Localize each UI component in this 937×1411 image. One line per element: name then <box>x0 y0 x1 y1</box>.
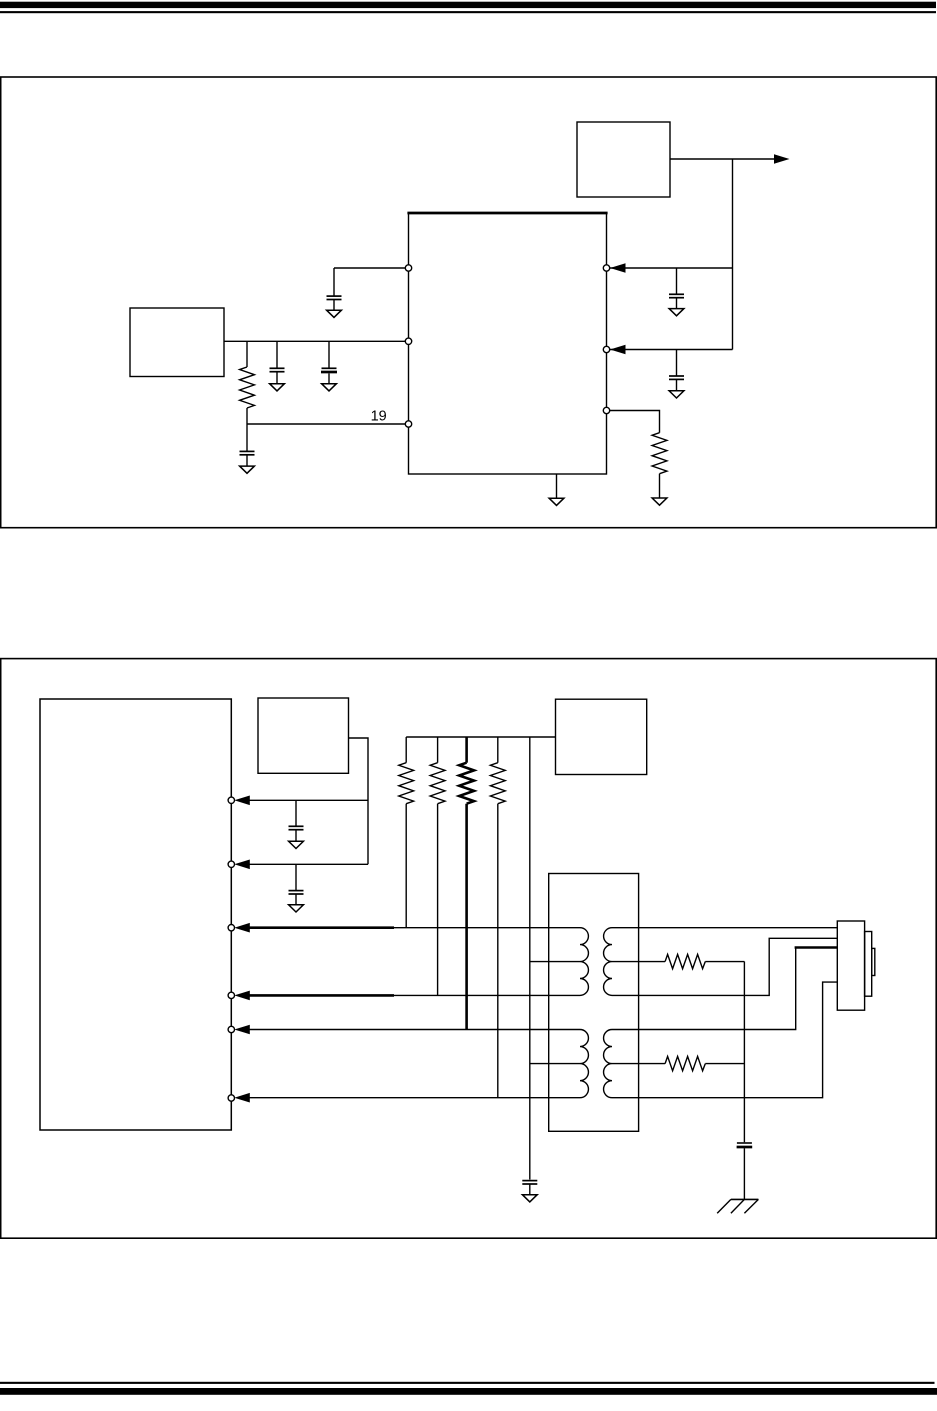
wire upper secondary bottom lead <box>612 938 837 995</box>
ground below right resistor <box>652 498 667 505</box>
ground below node capacitor <box>240 466 255 473</box>
wire lower primary center tap <box>530 1063 580 1065</box>
connector X1 shell <box>865 932 872 997</box>
IC U1 bold top edge <box>407 212 607 215</box>
IC U1 body <box>409 213 607 474</box>
capacitor 1 on U3 wire <box>270 341 285 383</box>
block U5 (small top box) <box>258 698 349 773</box>
transformer T1 upper secondary winding <box>604 928 612 996</box>
capacitor row 1 <box>289 800 304 841</box>
block U6 (top right box) <box>556 699 647 774</box>
wire MCU row 6 to transformer <box>249 1097 581 1099</box>
arrow into right pin 1 <box>610 263 626 273</box>
IC pin circle left 1 <box>405 265 411 271</box>
transformer T1 box <box>549 874 639 1132</box>
wire MCU row 4 bold segment <box>249 994 395 997</box>
wire IC right pin row 1 <box>610 267 733 269</box>
resistor right (vertical) <box>652 433 667 474</box>
wire pin 19 <box>247 423 409 425</box>
wire U3 to IC left pin 2 <box>224 340 409 342</box>
capacitor common reference <box>522 1181 537 1195</box>
earth ground <box>717 1199 758 1213</box>
wire MCU pin row 1 <box>249 799 369 801</box>
wire U5 output to vertical <box>349 738 369 864</box>
ground common reference <box>522 1195 537 1202</box>
capacitor on right row 2 <box>669 350 684 391</box>
capacitor row 2 <box>289 864 304 905</box>
wire upper secondary center tap <box>612 961 665 963</box>
block U3 (left box) <box>130 308 224 377</box>
wire MCU row 4 to transformer <box>393 994 580 996</box>
transformer T1 lower primary winding <box>580 1030 588 1098</box>
figure frame 1 <box>1 77 937 528</box>
MCU pin circle 3 <box>228 925 234 931</box>
ground capacitor 1 <box>270 384 285 391</box>
wire bold stub into connector <box>795 946 838 949</box>
arrow into MCU pin 2 <box>234 860 250 870</box>
capacitor below node 19 <box>240 451 255 466</box>
wire U2 output <box>670 158 775 160</box>
wire upper damping resistor to shield node <box>705 961 744 963</box>
ground row 2 <box>289 905 304 912</box>
MCU pin circle 6 <box>228 1095 234 1101</box>
wire lower damping resistor to shield node <box>705 1063 744 1065</box>
footer thin rule <box>0 1382 935 1384</box>
wire MCU row 3 to transformer <box>393 927 580 929</box>
wire resistor 2 to row 4 <box>437 804 439 996</box>
wire upper primary center tap <box>530 961 580 963</box>
connector X1 body <box>837 921 864 1010</box>
wire MCU row 5 to transformer <box>249 1029 581 1031</box>
ground left pin 1 <box>327 310 342 317</box>
arrow into MCU pin 5 <box>234 1025 250 1035</box>
transformer T1 upper primary winding <box>580 928 588 996</box>
pin number 19 label <box>371 408 387 424</box>
wire lower secondary top lead <box>612 948 796 1030</box>
capacitor on right row 1 <box>669 268 684 309</box>
IC pin circle left 3 (pin 19) <box>405 421 411 427</box>
block U2 (top-right box) <box>577 122 670 197</box>
resistor bias 3 (bold) <box>459 737 474 804</box>
resistor damping upper <box>665 954 705 968</box>
header thin rule <box>0 11 936 13</box>
wire IC right pin row 2 <box>610 349 733 351</box>
ground right row 1 <box>669 309 684 316</box>
IC pin circle right 2 <box>603 346 609 352</box>
resistor left (vertical) <box>240 341 255 408</box>
capacitor shield (bold bottom plate) <box>737 1143 753 1199</box>
IC pin circle right 1 <box>603 265 609 271</box>
MCU pin circle 5 <box>228 1026 234 1032</box>
wire resistor 4 to row 6 <box>497 804 499 1098</box>
wire shield vertical <box>743 962 745 1143</box>
wire resistor bus <box>406 736 555 738</box>
capacitor 2 on U3 wire (bold bottom plate) <box>321 341 337 383</box>
header thick rule <box>0 2 936 8</box>
wire resistor bottom to node 19 <box>246 408 248 451</box>
arrow into MCU pin 4 <box>234 991 250 1001</box>
arrow output right <box>774 154 790 164</box>
wire IC right pin row 3 <box>607 411 660 433</box>
IC pin circle left 2 <box>405 338 411 344</box>
wire vertical feedback branch <box>732 159 734 350</box>
wire IC bottom ground stub <box>556 474 558 498</box>
connector X1 tip <box>872 948 875 975</box>
wire common reference vertical <box>529 737 531 1180</box>
arrow into MCU pin 3 <box>234 923 250 933</box>
transformer T1 lower secondary winding <box>604 1030 612 1098</box>
resistor damping lower <box>665 1056 705 1070</box>
arrow into right pin 2 <box>610 345 626 355</box>
wire IC left pin 1 <box>334 267 409 269</box>
ground capacitor 2 <box>322 384 337 391</box>
block U4 (MCU, large left box) <box>40 699 231 1130</box>
wire resistor 3 to row 5 (bold) <box>465 804 468 1030</box>
wire lower secondary center tap <box>612 1063 665 1065</box>
ground row 1 <box>289 841 304 848</box>
figure frame 2 <box>1 659 937 1239</box>
MCU pin circle 1 <box>228 797 234 803</box>
ground right row 2 <box>669 391 684 398</box>
resistor bias 4 <box>490 737 505 804</box>
wire lower secondary bottom lead <box>612 982 837 1098</box>
wire MCU pin row 2 <box>249 863 369 865</box>
arrow into MCU pin 6 <box>234 1093 250 1103</box>
wire upper secondary top lead to connector <box>612 927 837 929</box>
wire resistor 1 to row 3 <box>405 804 407 928</box>
capacitor on left pin 1 wire <box>327 268 342 310</box>
arrow into MCU pin 1 <box>234 796 250 806</box>
resistor bias 1 <box>399 737 414 804</box>
ground below IC <box>549 498 564 505</box>
resistor bias 2 <box>430 737 445 804</box>
IC pin circle right 3 <box>603 407 609 413</box>
svg-text:19: 19 <box>371 408 387 424</box>
wire MCU row 3 bold segment <box>249 926 395 929</box>
MCU pin circle 4 <box>228 992 234 998</box>
wire resistor to ground <box>659 474 661 498</box>
footer thick rule <box>0 1388 937 1395</box>
MCU pin circle 2 <box>228 861 234 867</box>
